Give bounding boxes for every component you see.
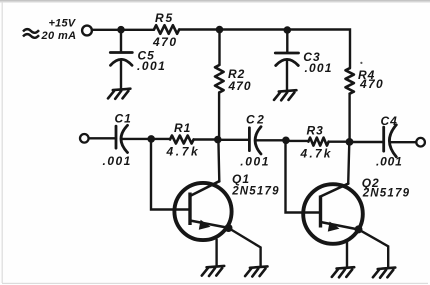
svg-text:C2: C2 — [246, 112, 266, 126]
svg-text:R5: R5 — [155, 11, 174, 25]
svg-text:.001: .001 — [137, 59, 166, 73]
svg-text:.001: .001 — [240, 155, 270, 169]
svg-text:470: 470 — [359, 77, 384, 91]
svg-text:2N5179: 2N5179 — [231, 185, 279, 197]
svg-text:R1: R1 — [174, 121, 191, 135]
svg-text:+15V: +15V — [49, 18, 77, 30]
svg-text:C4: C4 — [381, 114, 398, 128]
svg-text:4.7k: 4.7k — [166, 145, 201, 159]
svg-text:.001: .001 — [305, 61, 333, 75]
svg-text:4.7k: 4.7k — [300, 146, 333, 160]
svg-text:.001: .001 — [103, 154, 132, 168]
svg-text:2N5179: 2N5179 — [362, 188, 410, 200]
svg-text:R3: R3 — [307, 124, 324, 138]
svg-text:Q1: Q1 — [232, 172, 250, 186]
svg-text:C1: C1 — [115, 112, 132, 126]
svg-text:470: 470 — [228, 79, 252, 93]
svg-text:20 mA: 20 mA — [41, 30, 77, 42]
svg-text:.001: .001 — [376, 154, 403, 168]
svg-text:470: 470 — [152, 35, 178, 49]
